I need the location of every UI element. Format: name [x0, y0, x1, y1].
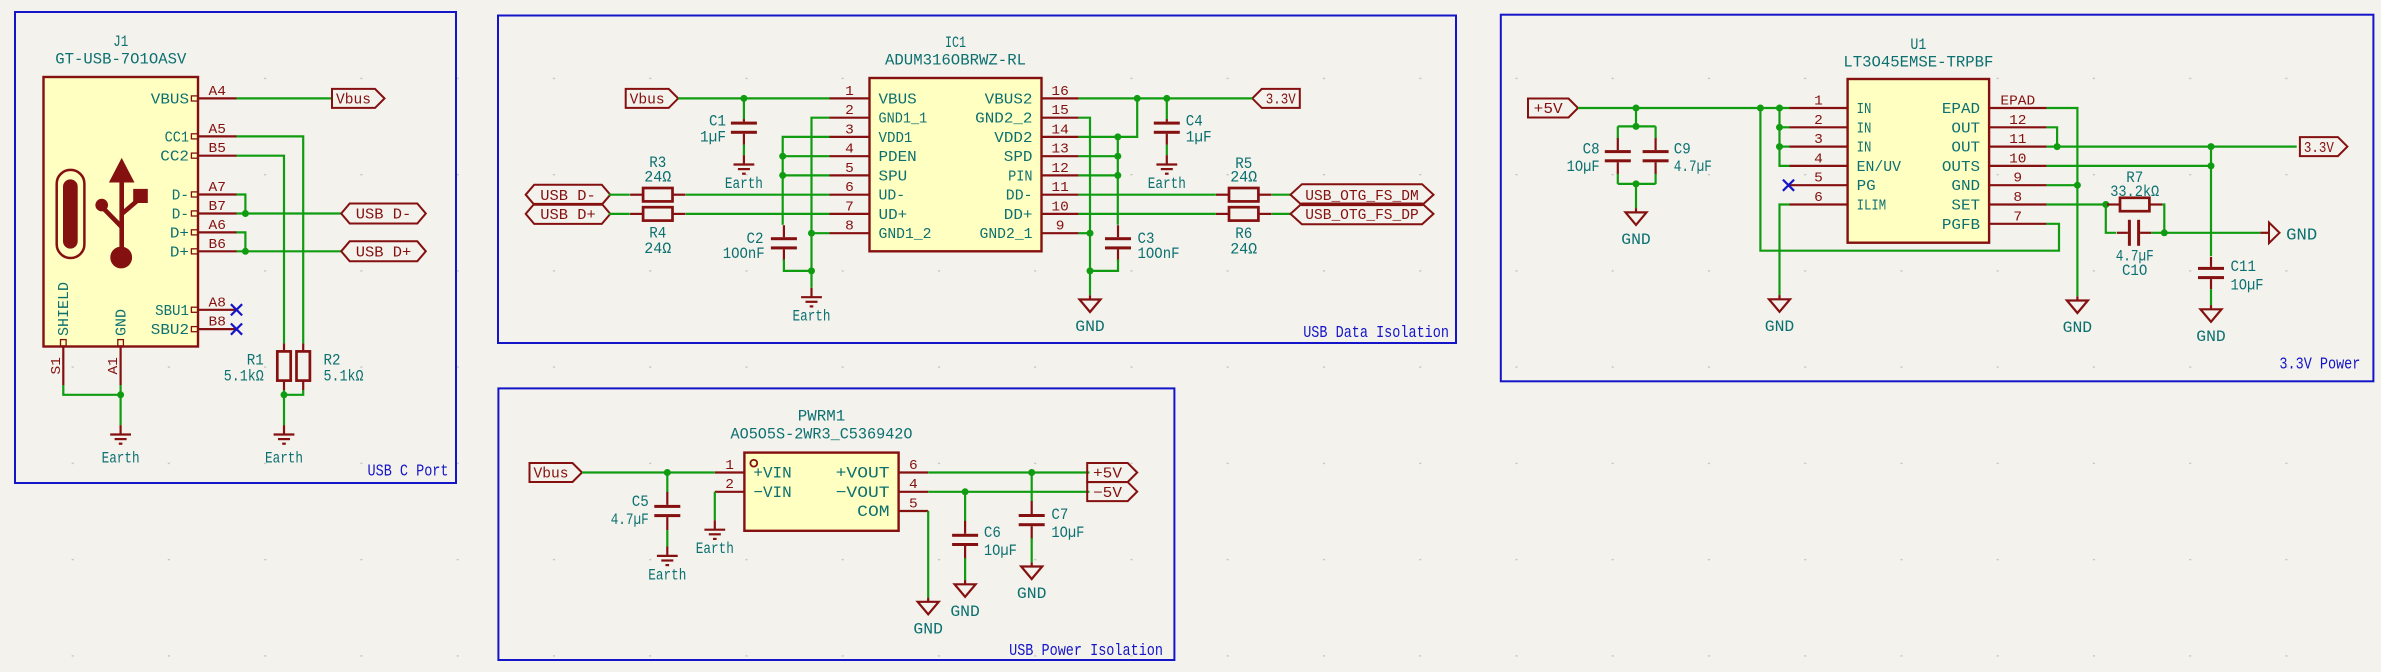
svg-text:USB D+: USB D+: [540, 208, 596, 224]
svg-text:LT3O45EMSE-TRPBF: LT3O45EMSE-TRPBF: [1843, 54, 1993, 72]
svg-text:VDD2: VDD2: [994, 130, 1032, 147]
svg-text:PG: PG: [1857, 178, 1876, 195]
svg-text:13: 13: [1051, 142, 1068, 158]
svg-text:6: 6: [1814, 190, 1823, 206]
svg-text:GND1_2: GND1_2: [879, 226, 932, 243]
svg-text:A8: A8: [209, 295, 226, 311]
svg-text:A5: A5: [209, 122, 226, 138]
svg-text:SET: SET: [1951, 198, 1980, 215]
svg-text:3.3V: 3.3V: [1266, 93, 1296, 109]
svg-text:Vbus: Vbus: [630, 93, 665, 109]
svg-text:UD-: UD-: [879, 188, 906, 205]
svg-text:GND: GND: [114, 309, 131, 336]
svg-text:C6: C6: [984, 524, 1001, 542]
svg-text:GND2_2: GND2_2: [975, 111, 1032, 128]
svg-text:SHIELD: SHIELD: [56, 282, 73, 336]
svg-text:12: 12: [1051, 161, 1068, 177]
svg-text:4.7µF: 4.7µF: [611, 511, 649, 529]
svg-text:D+: D+: [170, 225, 189, 242]
svg-text:10: 10: [1051, 199, 1068, 215]
svg-text:GND: GND: [913, 620, 943, 638]
svg-text:15: 15: [1051, 103, 1068, 119]
svg-text:C1O: C1O: [2122, 262, 2148, 280]
svg-text:USB D+: USB D+: [356, 246, 412, 262]
svg-text:D-: D-: [172, 207, 189, 224]
svg-text:GND2_1: GND2_1: [980, 226, 1033, 243]
svg-text:B5: B5: [209, 141, 226, 157]
svg-text:+5V: +5V: [1093, 467, 1122, 483]
svg-text:3.3V Power: 3.3V Power: [2279, 355, 2360, 374]
svg-text:24Ω: 24Ω: [1230, 241, 1257, 259]
svg-text:1OµF: 1OµF: [2231, 277, 2264, 295]
svg-text:USB C Port: USB C Port: [368, 462, 449, 481]
svg-text:CC2: CC2: [160, 149, 189, 166]
svg-text:C11: C11: [2231, 258, 2257, 276]
svg-text:−5V: −5V: [1093, 486, 1122, 502]
svg-text:GND: GND: [2063, 319, 2093, 337]
svg-text:B6: B6: [209, 237, 226, 253]
svg-text:5: 5: [909, 497, 918, 513]
svg-text:C9: C9: [1674, 140, 1691, 158]
svg-text:Earth: Earth: [648, 566, 686, 584]
svg-text:11: 11: [1051, 180, 1068, 196]
svg-text:24Ω: 24Ω: [644, 169, 671, 187]
svg-text:3: 3: [845, 122, 854, 138]
svg-text:A4: A4: [209, 84, 226, 100]
svg-text:EPAD: EPAD: [1942, 101, 1980, 118]
svg-text:6: 6: [909, 458, 918, 474]
svg-text:UD+: UD+: [879, 207, 908, 224]
svg-text:IC1: IC1: [945, 34, 966, 52]
svg-text:USB_OTG_FS_DM: USB_OTG_FS_DM: [1305, 189, 1418, 205]
svg-text:1µF: 1µF: [1186, 129, 1212, 147]
svg-text:GND: GND: [1951, 178, 1980, 195]
svg-text:VBUS: VBUS: [151, 91, 189, 108]
svg-text:C8: C8: [1583, 140, 1600, 158]
svg-text:USB_OTG_FS_DP: USB_OTG_FS_DP: [1305, 208, 1418, 224]
svg-text:+VIN: +VIN: [753, 465, 791, 483]
svg-text:3.3V: 3.3V: [2304, 141, 2334, 157]
svg-text:PDEN: PDEN: [879, 149, 917, 166]
svg-text:GND: GND: [1017, 585, 1047, 603]
svg-text:Vbus: Vbus: [534, 467, 569, 483]
svg-text:1OµF: 1OµF: [1567, 158, 1600, 176]
svg-text:1OµF: 1OµF: [984, 542, 1017, 560]
svg-text:GND: GND: [950, 603, 980, 621]
svg-text:−VIN: −VIN: [753, 484, 791, 502]
svg-text:DD+: DD+: [1004, 207, 1033, 224]
svg-text:−VOUT: −VOUT: [836, 484, 890, 502]
svg-text:IN: IN: [1857, 120, 1872, 137]
svg-text:4: 4: [845, 142, 854, 158]
svg-text:5: 5: [1814, 171, 1823, 187]
svg-text:OUT: OUT: [1951, 140, 1980, 157]
svg-text:SBU1: SBU1: [155, 303, 189, 320]
svg-text:+VOUT: +VOUT: [836, 465, 890, 483]
svg-text:USB Power Isolation: USB Power Isolation: [1009, 641, 1163, 660]
svg-text:+5V: +5V: [1534, 102, 1563, 118]
svg-text:14: 14: [1051, 122, 1068, 138]
svg-text:CC1: CC1: [165, 129, 189, 146]
svg-text:B8: B8: [209, 315, 226, 331]
svg-text:10: 10: [2009, 151, 2026, 167]
svg-text:Earth: Earth: [793, 308, 831, 326]
svg-text:VDD1: VDD1: [879, 130, 913, 147]
svg-text:1: 1: [1814, 94, 1823, 110]
svg-text:PGFB: PGFB: [1942, 217, 1980, 234]
svg-text:16: 16: [1051, 84, 1068, 100]
svg-text:A6: A6: [209, 218, 226, 234]
svg-text:OUT: OUT: [1951, 120, 1980, 137]
svg-text:Earth: Earth: [1148, 175, 1186, 193]
svg-text:A7: A7: [209, 180, 226, 196]
svg-text:PIN: PIN: [1008, 168, 1032, 185]
svg-text:1OOnF: 1OOnF: [1138, 245, 1180, 263]
svg-text:Earth: Earth: [696, 540, 734, 558]
svg-text:5.1kΩ: 5.1kΩ: [224, 368, 264, 386]
svg-text:J1: J1: [113, 33, 128, 51]
svg-text:7: 7: [845, 199, 854, 215]
svg-text:6: 6: [845, 180, 854, 196]
svg-text:4.7µF: 4.7µF: [1674, 158, 1712, 176]
svg-text:D+: D+: [170, 244, 189, 261]
svg-text:OUTS: OUTS: [1942, 159, 1980, 176]
svg-text:9: 9: [1056, 219, 1065, 235]
svg-text:1: 1: [845, 84, 854, 100]
svg-text:3: 3: [1814, 132, 1823, 148]
svg-text:GND: GND: [1621, 231, 1651, 249]
svg-text:33.2kΩ: 33.2kΩ: [2110, 183, 2159, 201]
svg-text:5: 5: [845, 161, 854, 177]
svg-text:GND: GND: [1075, 318, 1105, 336]
svg-text:4: 4: [1814, 151, 1823, 167]
svg-text:ILIM: ILIM: [1857, 198, 1887, 215]
svg-text:AO5O5S-2WR3_C536942O: AO5O5S-2WR3_C536942O: [731, 426, 913, 444]
svg-text:PWRM1: PWRM1: [798, 408, 846, 426]
svg-text:ADUM316OBRWZ-RL: ADUM316OBRWZ-RL: [885, 52, 1026, 70]
svg-text:24Ω: 24Ω: [1230, 169, 1257, 187]
svg-text:D-: D-: [172, 188, 189, 205]
svg-text:24Ω: 24Ω: [644, 240, 671, 258]
svg-text:Earth: Earth: [102, 450, 140, 468]
svg-text:GND1_1: GND1_1: [879, 111, 928, 128]
svg-text:Vbus: Vbus: [336, 93, 371, 109]
svg-text:1OµF: 1OµF: [1051, 524, 1084, 542]
svg-text:IN: IN: [1857, 101, 1872, 118]
svg-text:U1: U1: [1910, 36, 1926, 54]
svg-text:1: 1: [725, 458, 734, 474]
svg-text:9: 9: [2013, 171, 2022, 187]
svg-text:EN/UV: EN/UV: [1857, 159, 1901, 176]
svg-text:4: 4: [909, 477, 918, 493]
svg-text:DD-: DD-: [1006, 188, 1033, 205]
svg-text:GND: GND: [1765, 318, 1795, 336]
svg-text:GND: GND: [2196, 328, 2226, 346]
svg-text:1OOnF: 1OOnF: [723, 245, 765, 263]
svg-text:11: 11: [2009, 132, 2026, 148]
svg-text:8: 8: [2013, 190, 2022, 206]
svg-text:SBU2: SBU2: [151, 322, 189, 339]
svg-text:GND: GND: [2286, 226, 2317, 245]
svg-text:5.1kΩ: 5.1kΩ: [324, 368, 364, 386]
svg-text:Earth: Earth: [265, 450, 303, 468]
svg-text:A1: A1: [106, 357, 122, 374]
svg-text:Earth: Earth: [725, 175, 763, 193]
svg-text:2: 2: [845, 103, 854, 119]
svg-text:VBUS: VBUS: [879, 91, 917, 108]
svg-text:COM: COM: [857, 503, 889, 521]
svg-text:USB Data Isolation: USB Data Isolation: [1303, 323, 1449, 342]
svg-text:B7: B7: [209, 199, 226, 215]
svg-text:1µF: 1µF: [700, 129, 726, 147]
svg-text:S1: S1: [49, 357, 65, 374]
svg-text:GT-USB-7O1OASV: GT-USB-7O1OASV: [55, 51, 186, 69]
svg-text:IN: IN: [1857, 140, 1872, 157]
svg-text:7: 7: [2013, 209, 2022, 225]
svg-text:12: 12: [2009, 113, 2026, 129]
svg-text:SPD: SPD: [1004, 149, 1033, 166]
svg-text:USB D-: USB D-: [540, 189, 596, 205]
svg-text:EPAD: EPAD: [2000, 94, 2035, 110]
svg-text:C5: C5: [632, 493, 649, 511]
svg-text:2: 2: [1814, 113, 1823, 129]
svg-text:VBUS2: VBUS2: [985, 91, 1033, 108]
svg-text:C7: C7: [1051, 506, 1068, 524]
svg-text:8: 8: [845, 219, 854, 235]
svg-text:SPU: SPU: [879, 168, 908, 185]
svg-text:2: 2: [725, 477, 734, 493]
svg-text:USB D-: USB D-: [356, 208, 412, 224]
